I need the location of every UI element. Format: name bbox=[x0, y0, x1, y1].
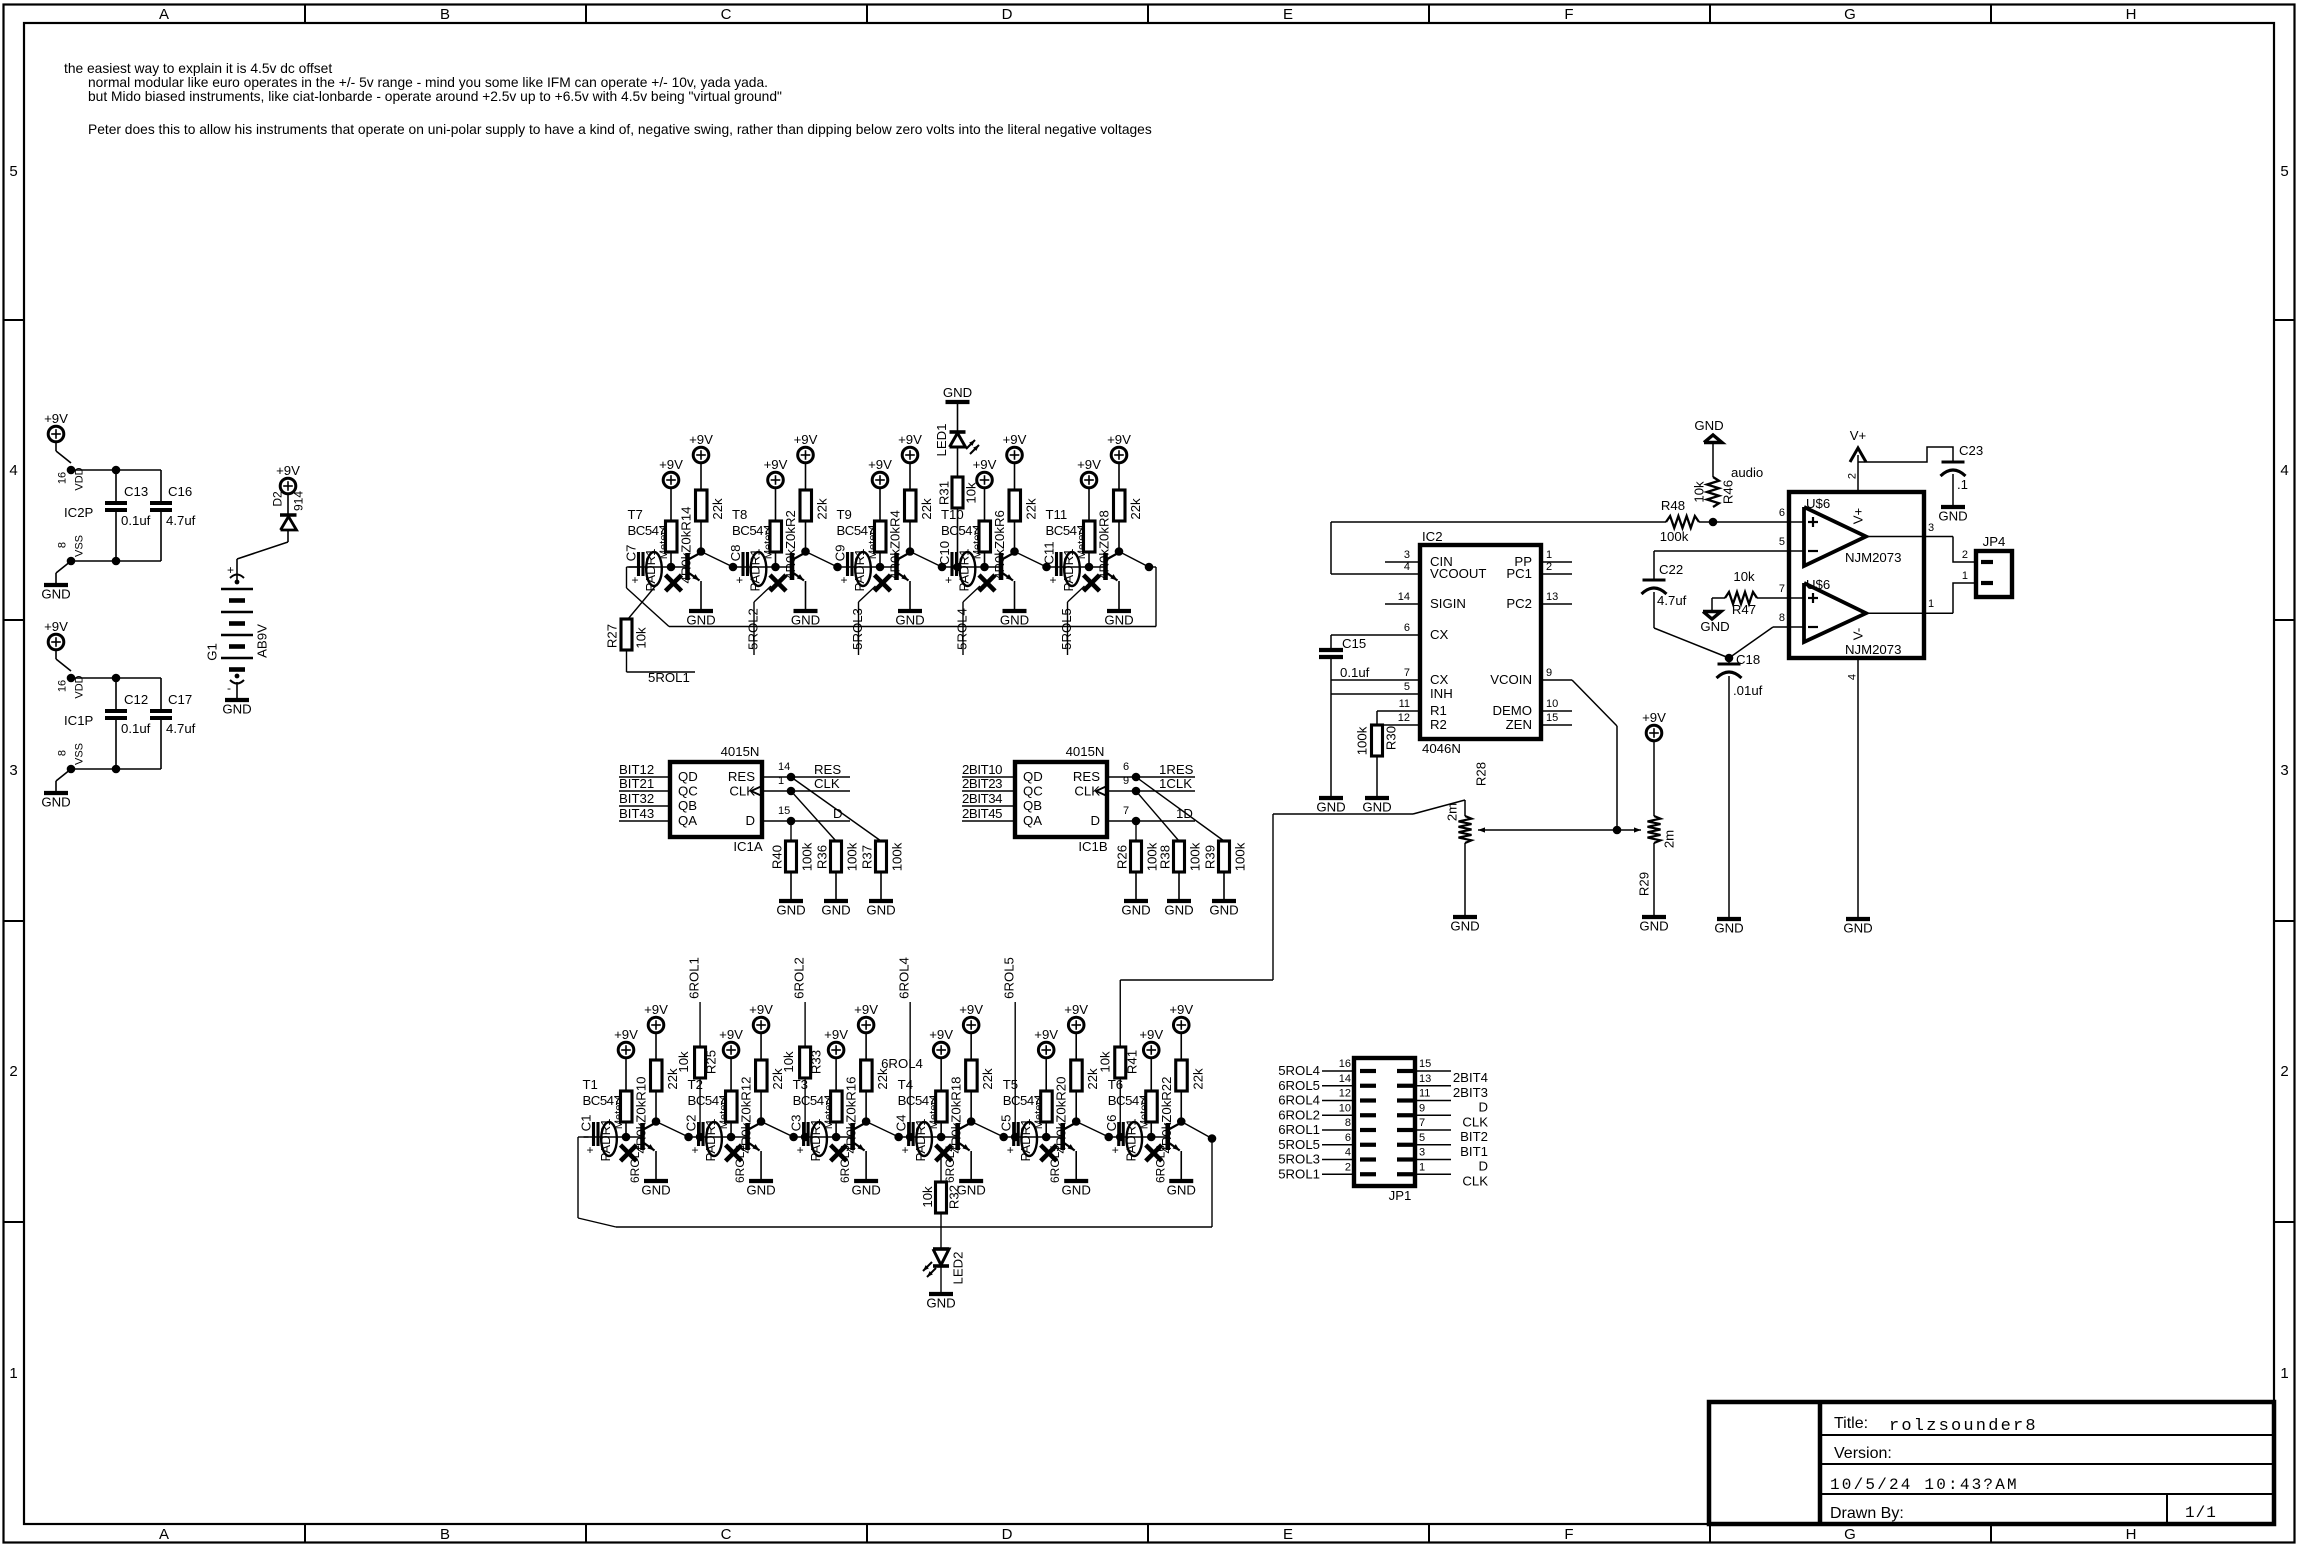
svg-text:+9V: +9V bbox=[1077, 457, 1101, 472]
svg-text:0.1uf: 0.1uf bbox=[121, 513, 151, 528]
svg-text:D: D bbox=[1002, 1526, 1013, 1543]
wire D to R40 bbox=[790, 821, 792, 841]
supply +9V for 22k collector resistor of T1 bbox=[648, 1017, 664, 1033]
svg-text:A: A bbox=[159, 6, 169, 23]
svg-text:1: 1 bbox=[1928, 598, 1934, 610]
svg-text:4: 4 bbox=[2280, 462, 2288, 479]
wire output 1 to JP4 pin1 bbox=[1953, 583, 1976, 613]
resistor 22k of T3 bbox=[861, 1060, 873, 1091]
pin BIT3 of IC1A bbox=[619, 805, 670, 807]
svg-text:NJM2073: NJM2073 bbox=[1845, 550, 1901, 565]
resistor R2 bbox=[770, 521, 782, 552]
svg-text:R1: R1 bbox=[1430, 703, 1447, 718]
svg-text:R38: R38 bbox=[1158, 845, 1173, 869]
svg-text:+9V: +9V bbox=[719, 1027, 743, 1042]
resistor 22k of T6 bbox=[1176, 1060, 1188, 1091]
pin 10 DEMO stub bbox=[1541, 710, 1572, 712]
svg-text:13: 13 bbox=[1546, 591, 1558, 603]
svg-text:GND: GND bbox=[1714, 921, 1743, 936]
svg-text:C23: C23 bbox=[1959, 443, 1983, 458]
wire collector of T1 to next cell bbox=[656, 1122, 689, 1138]
wire gnd to LED1 bbox=[957, 402, 959, 432]
svg-text:GND: GND bbox=[1062, 1183, 1091, 1198]
svg-text:+: + bbox=[736, 573, 743, 587]
svg-text:B: B bbox=[440, 1526, 450, 1543]
svg-text:14: 14 bbox=[778, 761, 790, 773]
svg-text:Peter does this to allow his i: Peter does this to allow his instruments… bbox=[88, 122, 1152, 137]
pin BIT2 (pin 1) of IC1A bbox=[619, 790, 670, 792]
net stub 5ROL2 bbox=[754, 586, 771, 602]
piezo cross of T8 bbox=[770, 575, 786, 591]
svg-text:+9V: +9V bbox=[749, 1002, 773, 1017]
svg-text:100k: 100k bbox=[845, 842, 860, 871]
svg-text:100k: 100k bbox=[1660, 529, 1689, 544]
piezo cross of T3 bbox=[831, 1145, 847, 1161]
svg-text:LED2: LED2 bbox=[951, 1252, 966, 1285]
IC IC1B 4015N bbox=[1015, 762, 1107, 837]
svg-text:VSS: VSS bbox=[74, 743, 86, 765]
svg-text:RES: RES bbox=[1073, 769, 1100, 784]
ground for R29 bbox=[1642, 915, 1666, 919]
svg-text:BIT1: BIT1 bbox=[1460, 1144, 1488, 1159]
svg-text:4.7uf: 4.7uf bbox=[166, 513, 196, 528]
ground for R37 bbox=[869, 899, 893, 903]
svg-text:QA: QA bbox=[678, 813, 697, 828]
svg-text:H: H bbox=[2126, 1526, 2137, 1543]
svg-text:+: + bbox=[587, 1143, 594, 1157]
piezo PAD of T6 bbox=[1126, 1122, 1142, 1156]
svg-text:10k: 10k bbox=[1733, 569, 1755, 584]
wire R48 to op-amp pin 6 bbox=[1699, 521, 1789, 523]
resistor R37 100k bbox=[876, 841, 887, 872]
svg-text:1: 1 bbox=[1962, 570, 1968, 582]
resistor 22k of T10 bbox=[1009, 490, 1021, 521]
svg-text:1: 1 bbox=[1546, 549, 1552, 561]
svg-text:1RES: 1RES bbox=[1159, 762, 1194, 777]
supply +9V for R18 resistor of T4 bbox=[933, 1042, 949, 1058]
svg-text:6ROL3: 6ROL3 bbox=[838, 1145, 852, 1183]
wire to ground bbox=[56, 561, 71, 573]
svg-text:3: 3 bbox=[1928, 522, 1934, 534]
svg-text:C15: C15 bbox=[1342, 636, 1366, 651]
resistor R27 10k bbox=[621, 619, 632, 650]
svg-text:4R0kZ0kR20: 4R0kZ0kR20 bbox=[1054, 1077, 1069, 1154]
svg-text:VDD: VDD bbox=[74, 467, 86, 490]
wire vdd rail bbox=[71, 469, 161, 471]
svg-text:100k: 100k bbox=[1355, 726, 1370, 755]
wire collector of T4 to next cell bbox=[971, 1122, 1004, 1138]
svg-text:+: + bbox=[1050, 573, 1057, 587]
svg-text:1: 1 bbox=[9, 1365, 17, 1382]
svg-text:GND: GND bbox=[1938, 509, 1967, 524]
svg-text:+9V: +9V bbox=[659, 457, 683, 472]
pin 1 CLK of IC1A bbox=[762, 790, 850, 792]
pin 7 wire bbox=[1757, 597, 1804, 599]
svg-text:QD: QD bbox=[678, 769, 698, 784]
svg-text:CX: CX bbox=[1430, 672, 1449, 687]
svg-text:VSS: VSS bbox=[74, 535, 86, 557]
svg-text:6ROL4: 6ROL4 bbox=[897, 957, 912, 999]
svg-text:4046N: 4046N bbox=[1422, 741, 1461, 756]
JP1 pin 16 5ROL4 bbox=[1322, 1070, 1354, 1072]
svg-text:IC1P: IC1P bbox=[64, 713, 94, 728]
piezo cross of T9 bbox=[875, 575, 891, 591]
svg-text:R31: R31 bbox=[937, 481, 952, 505]
svg-text:A: A bbox=[159, 1526, 169, 1543]
connector JP1 bbox=[1354, 1058, 1415, 1186]
svg-text:Version:: Version: bbox=[1834, 1445, 1892, 1462]
ground for C23 bbox=[1941, 505, 1965, 509]
svg-text:10k: 10k bbox=[676, 1051, 691, 1073]
svg-text:11: 11 bbox=[1399, 698, 1410, 710]
piezo cross of T11 bbox=[1084, 575, 1100, 591]
piezo PAD of T2 bbox=[706, 1122, 722, 1156]
svg-text:5: 5 bbox=[1419, 1132, 1425, 1144]
resistor R10 bbox=[621, 1091, 633, 1122]
svg-text:GND: GND bbox=[866, 903, 895, 918]
supply +9V for R16 resistor of T3 bbox=[828, 1042, 844, 1058]
svg-text:+9V: +9V bbox=[1064, 1002, 1088, 1017]
svg-text:QC: QC bbox=[1023, 784, 1043, 799]
svg-text:JP1: JP1 bbox=[1389, 1188, 1412, 1203]
resistor R47 10k bbox=[1725, 592, 1757, 604]
svg-text:+9V: +9V bbox=[868, 457, 892, 472]
svg-text:GND: GND bbox=[926, 1296, 955, 1311]
svg-text:6ROL4: 6ROL4 bbox=[943, 1145, 957, 1183]
svg-text:Title:: Title: bbox=[1834, 1415, 1868, 1432]
pin 9 CLK of IC1B bbox=[1107, 790, 1195, 792]
resistor R41 10k bbox=[1119, 980, 1121, 1047]
svg-text:4015N: 4015N bbox=[721, 744, 760, 759]
pin 6 RES of IC1B bbox=[1107, 776, 1195, 778]
ground for C18 bbox=[1717, 917, 1741, 921]
svg-text:2BIT23: 2BIT23 bbox=[962, 776, 1002, 791]
wire 1CLK to R38 bbox=[1136, 791, 1179, 841]
svg-text:C8: C8 bbox=[728, 545, 743, 562]
svg-text:PADR1: PADR1 bbox=[1061, 549, 1076, 592]
wire R38 to ground bbox=[1178, 872, 1180, 901]
svg-text:22k: 22k bbox=[710, 498, 725, 520]
pin 2BIT2 of IC1B bbox=[962, 790, 1015, 792]
piezo PAD of T11 bbox=[1064, 552, 1080, 586]
piezo cross of T10 bbox=[979, 575, 995, 591]
resistor R38 100k bbox=[1174, 841, 1185, 872]
svg-text:3: 3 bbox=[1404, 549, 1410, 561]
svg-text:+9V: +9V bbox=[1003, 432, 1027, 447]
svg-text:C11: C11 bbox=[1042, 541, 1057, 564]
pin 2BIT1 of IC1B bbox=[962, 776, 1015, 778]
resistor R8 bbox=[1084, 521, 1096, 552]
svg-text:2m: 2m bbox=[1445, 803, 1460, 821]
svg-text:C2: C2 bbox=[684, 1115, 699, 1132]
JP1 pin 12 6ROL4 bbox=[1322, 1100, 1354, 1102]
svg-text:+9V: +9V bbox=[1169, 1002, 1193, 1017]
svg-text:QC: QC bbox=[678, 784, 698, 799]
wire bottom bus of bottom rolz ring bbox=[616, 1226, 1212, 1228]
resistor R40 100k bbox=[786, 841, 797, 872]
svg-text:16: 16 bbox=[57, 680, 69, 692]
JP1 pin 15 2BIT4 bbox=[1415, 1070, 1451, 1072]
svg-text:914: 914 bbox=[292, 491, 306, 511]
piezo PAD of T7 bbox=[646, 552, 662, 586]
wire emitter to ground of T8 bbox=[805, 581, 807, 611]
pin 11 R1 wire bbox=[1377, 710, 1420, 712]
pin 15 ZEN stub bbox=[1541, 724, 1572, 726]
svg-text:T7: T7 bbox=[628, 507, 643, 522]
svg-text:GND: GND bbox=[1362, 800, 1391, 815]
clock wedge IC1A bbox=[751, 786, 762, 796]
pin 14 RES of IC1A bbox=[762, 776, 850, 778]
net stub 5ROL3 bbox=[859, 586, 876, 602]
ground bbox=[225, 698, 249, 702]
svg-text:+9V: +9V bbox=[929, 1027, 953, 1042]
svg-text:5ROL4: 5ROL4 bbox=[955, 608, 970, 650]
resistor R12 bbox=[726, 1091, 738, 1122]
IC IC1A 4015N bbox=[670, 762, 762, 837]
wire base node of T5 bbox=[1004, 1136, 1063, 1138]
pin 3 CIN stub bbox=[1385, 561, 1420, 563]
JP1 pin 13 2BIT3 bbox=[1415, 1085, 1451, 1087]
svg-text:-: - bbox=[227, 681, 231, 695]
resistor R6 bbox=[979, 521, 991, 552]
svg-text:6ROL2: 6ROL2 bbox=[1278, 1107, 1320, 1122]
svg-text:6ROL2: 6ROL2 bbox=[792, 957, 807, 999]
svg-text:GND: GND bbox=[851, 1183, 880, 1198]
resistor R48 100k bbox=[1666, 516, 1699, 528]
svg-text:22k: 22k bbox=[1024, 498, 1039, 520]
JP1 pin 6 5ROL5 bbox=[1322, 1144, 1354, 1146]
resistor R26 100k bbox=[1131, 841, 1142, 872]
supply +9V for R8 resistor of T11 bbox=[1081, 472, 1097, 488]
svg-text:F: F bbox=[1564, 1526, 1573, 1543]
svg-text:6ROL5: 6ROL5 bbox=[1278, 1078, 1320, 1093]
svg-text:but Mido biased instruments, l: but Mido biased instruments, like ciat-l… bbox=[88, 89, 782, 104]
wire bbox=[55, 649, 57, 659]
svg-text:V-: V- bbox=[1851, 628, 1866, 640]
connector JP4 bbox=[1976, 551, 2012, 597]
supply +9V for R2 resistor of T8 bbox=[768, 472, 784, 488]
svg-text:8: 8 bbox=[1345, 1117, 1351, 1129]
svg-text:2BIT3: 2BIT3 bbox=[1453, 1085, 1488, 1100]
svg-text:IC1B: IC1B bbox=[1078, 839, 1108, 854]
svg-text:22k: 22k bbox=[815, 498, 830, 520]
svg-text:R30: R30 bbox=[1384, 726, 1399, 750]
wire R37 to ground bbox=[880, 872, 882, 901]
svg-text:normal modular like euro opera: normal modular like euro operates in the… bbox=[88, 75, 768, 90]
svg-text:4R0kZ0kR14: 4R0kZ0kR14 bbox=[679, 507, 694, 584]
svg-text:5: 5 bbox=[9, 163, 17, 180]
wire VCOOUT up and over to R48 bbox=[1330, 522, 1332, 574]
wiper wire between R28 and R29 bbox=[1478, 829, 1641, 831]
ground bbox=[44, 583, 68, 587]
svg-text:LED1: LED1 bbox=[934, 424, 949, 457]
svg-text:C1: C1 bbox=[579, 1115, 594, 1132]
wire R46 to ground bbox=[1712, 442, 1714, 477]
svg-text:AB9V: AB9V bbox=[255, 624, 270, 658]
svg-text:CLK: CLK bbox=[814, 776, 840, 791]
svg-text:GND: GND bbox=[1694, 418, 1723, 433]
svg-text:22k: 22k bbox=[1128, 498, 1143, 520]
svg-text:+9V: +9V bbox=[644, 1002, 668, 1017]
svg-text:4R0kZ0kR4: 4R0kZ0kR4 bbox=[888, 510, 903, 580]
JP1 pin 8 6ROL1 bbox=[1322, 1129, 1354, 1131]
supply +9V for 22k collector resistor of T2 bbox=[753, 1017, 769, 1033]
JP1 pin 1 CLK bbox=[1415, 1173, 1451, 1175]
wire collector of T8 to next cell bbox=[806, 552, 838, 568]
svg-text:PC1: PC1 bbox=[1506, 566, 1532, 581]
wire vss rail bbox=[71, 768, 161, 770]
svg-text:4: 4 bbox=[1404, 561, 1410, 573]
ground for T4 bbox=[959, 1179, 983, 1183]
capacitor C18 .01uf bbox=[1728, 658, 1730, 664]
pin 2BIT3 of IC1B bbox=[962, 805, 1015, 807]
svg-text:.1: .1 bbox=[1957, 477, 1968, 492]
wire V+ branch to C23 bbox=[1858, 447, 1953, 462]
svg-text:GND: GND bbox=[1843, 921, 1872, 936]
supply +9V for 22k collector resistor of T8 bbox=[798, 447, 814, 463]
svg-text:R25: R25 bbox=[704, 1050, 719, 1074]
svg-text:NJM2073: NJM2073 bbox=[1845, 642, 1901, 657]
pin 1 PP stub bbox=[1541, 561, 1572, 563]
svg-text:D2: D2 bbox=[271, 491, 285, 507]
svg-text:3: 3 bbox=[9, 762, 17, 779]
svg-text:0.1uf: 0.1uf bbox=[121, 721, 151, 736]
wire pin8 to C18 junction bbox=[1729, 627, 1773, 658]
ground for T8 bbox=[794, 609, 818, 613]
svg-text:+9V: +9V bbox=[276, 463, 300, 478]
piezo PAD of T8 bbox=[751, 552, 767, 586]
svg-text:14: 14 bbox=[1398, 591, 1410, 603]
svg-text:C6: C6 bbox=[1104, 1115, 1119, 1132]
svg-text:QB: QB bbox=[678, 798, 697, 813]
svg-text:RES: RES bbox=[814, 762, 841, 777]
svg-text:13: 13 bbox=[1419, 1073, 1431, 1085]
svg-text:CX: CX bbox=[1430, 627, 1449, 642]
svg-text:10: 10 bbox=[1546, 698, 1558, 710]
wire emitter to ground of T9 bbox=[909, 581, 911, 611]
svg-text:VCOOUT: VCOOUT bbox=[1430, 566, 1486, 581]
svg-text:PADR1: PADR1 bbox=[1123, 1119, 1138, 1162]
wire base node of T8 bbox=[733, 566, 792, 568]
svg-text:+9V: +9V bbox=[973, 457, 997, 472]
piezo cross of T5 bbox=[1041, 1145, 1057, 1161]
svg-text:C4: C4 bbox=[894, 1115, 909, 1132]
pin 8 wire bbox=[1773, 626, 1804, 628]
svg-text:+: + bbox=[841, 573, 848, 587]
svg-text:GND: GND bbox=[1121, 903, 1150, 918]
svg-text:4R0kZ0kR2: 4R0kZ0kR2 bbox=[783, 510, 798, 580]
wire R26 to ground bbox=[1135, 872, 1137, 901]
JP1 pin 14 6ROL5 bbox=[1322, 1085, 1354, 1087]
svg-text:R28: R28 bbox=[1474, 762, 1489, 786]
wire last collector T6 to right bus bbox=[1181, 1122, 1212, 1139]
svg-text:2BIT34: 2BIT34 bbox=[962, 791, 1002, 806]
ground for R38 bbox=[1167, 899, 1191, 903]
wire base node of T6 bbox=[1109, 1136, 1168, 1138]
svg-text:7: 7 bbox=[1123, 805, 1129, 817]
supply +9V for 22k collector resistor of T11 bbox=[1111, 447, 1127, 463]
svg-text:8: 8 bbox=[57, 750, 69, 756]
svg-text:GND: GND bbox=[41, 795, 70, 810]
svg-text:C3: C3 bbox=[789, 1115, 804, 1132]
svg-text:+9V: +9V bbox=[614, 1027, 638, 1042]
ground for T5 bbox=[1064, 1179, 1088, 1183]
svg-text:C10: C10 bbox=[937, 541, 952, 565]
ground for R30 bbox=[1365, 796, 1389, 800]
svg-text:100k: 100k bbox=[1188, 842, 1203, 871]
resistor R36 100k bbox=[831, 841, 842, 872]
wire right vertical to bottom bus bbox=[1211, 1139, 1213, 1228]
V+ supply symbol bbox=[1857, 455, 1859, 492]
piezo PAD of T10 bbox=[960, 552, 976, 586]
ground for T1 bbox=[644, 1179, 668, 1183]
pin BIT1 (pin 2) of IC1A bbox=[619, 776, 670, 778]
svg-text:+9V: +9V bbox=[764, 457, 788, 472]
svg-text:SIGIN: SIGIN bbox=[1430, 596, 1466, 611]
svg-text:R47: R47 bbox=[1732, 602, 1756, 617]
resistor 22k of T1 bbox=[651, 1060, 663, 1091]
supply +9V for 22k collector resistor of T6 bbox=[1173, 1017, 1189, 1033]
svg-text:6ROL1: 6ROL1 bbox=[628, 1145, 642, 1183]
wire collector of T7 to next cell bbox=[701, 552, 733, 568]
svg-text:GND: GND bbox=[791, 613, 820, 628]
trimpot R28 2m bbox=[1464, 800, 1466, 816]
wire right vertical to bottom bus bbox=[1155, 567, 1157, 627]
svg-text:GND: GND bbox=[895, 613, 924, 628]
svg-text:10k: 10k bbox=[781, 1051, 796, 1073]
svg-text:100k: 100k bbox=[800, 842, 815, 871]
wire C22 to C18 junction bbox=[1654, 628, 1729, 658]
resistor 22k of T11 bbox=[1114, 490, 1126, 521]
svg-text:B: B bbox=[440, 6, 450, 23]
wire base node of T2 bbox=[689, 1136, 748, 1138]
JP1 pin 9 CLK bbox=[1415, 1114, 1451, 1116]
capacitor C13 0.1uf bbox=[115, 470, 117, 503]
piezo cross of T4 bbox=[936, 1145, 952, 1161]
ground for R39 bbox=[1212, 899, 1236, 903]
wire R36 to ground bbox=[835, 872, 837, 901]
svg-text:R40: R40 bbox=[770, 845, 785, 869]
svg-text:3: 3 bbox=[2280, 762, 2288, 779]
svg-text:H: H bbox=[2126, 6, 2137, 23]
svg-text:5ROL2: 5ROL2 bbox=[746, 608, 761, 650]
wire battery to ground bbox=[236, 682, 238, 700]
ground for T11 bbox=[1107, 609, 1131, 613]
pin 4 VCOOUT wire bbox=[1331, 573, 1420, 575]
svg-text:DEMO: DEMO bbox=[1492, 703, 1532, 718]
wire base node of T10 bbox=[942, 566, 1001, 568]
svg-text:ZEN: ZEN bbox=[1506, 717, 1532, 732]
ground for T3 bbox=[854, 1179, 878, 1183]
wire R47 to ground triangle bbox=[1712, 597, 1725, 599]
svg-text:JP4: JP4 bbox=[1983, 534, 2006, 549]
ground for T6 bbox=[1169, 1179, 1193, 1183]
svg-text:15: 15 bbox=[1546, 712, 1558, 724]
JP1 pin 3 D bbox=[1415, 1159, 1451, 1161]
piezo cross of T1 bbox=[621, 1145, 637, 1161]
svg-text:T11: T11 bbox=[1046, 507, 1068, 522]
svg-text:audio: audio bbox=[1731, 465, 1763, 480]
svg-text:GND: GND bbox=[943, 385, 972, 400]
svg-text:11: 11 bbox=[1419, 1088, 1430, 1100]
svg-text:GND: GND bbox=[821, 903, 850, 918]
svg-text:22k: 22k bbox=[919, 498, 934, 520]
svg-text:IC1A: IC1A bbox=[733, 839, 763, 854]
pin 4 wire to ground bbox=[1857, 658, 1859, 919]
svg-text:4R0kZ0kR10: 4R0kZ0kR10 bbox=[634, 1077, 649, 1154]
svg-text:Drawn By:: Drawn By: bbox=[1830, 1505, 1904, 1522]
svg-text:C7: C7 bbox=[624, 545, 639, 562]
